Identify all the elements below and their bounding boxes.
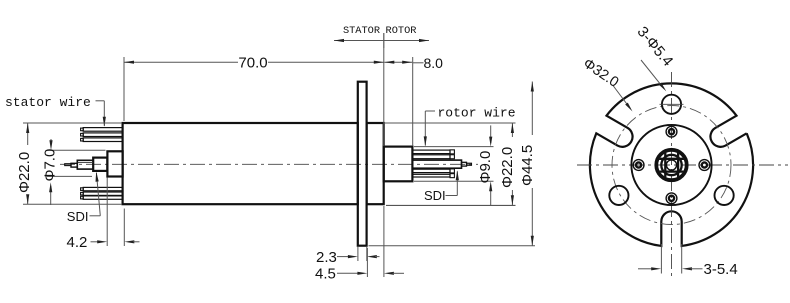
- svg-text:stator wire: stator wire: [5, 95, 91, 110]
- svg-text:70.0: 70.0: [238, 55, 267, 72]
- top hole crosshair: [660, 103, 684, 105]
- stator wires upper bundle: [83, 128, 122, 132]
- left shaft mid section: [93, 158, 107, 171]
- svg-text:Φ22.0: Φ22.0: [499, 147, 516, 188]
- dimension 4.5: [366, 248, 368, 277]
- centerline side view: [60, 163, 478, 165]
- dimension phi22.0 right: [385, 122, 516, 124]
- front view vertical centerline: [671, 72, 673, 278]
- label phi32.0: [613, 86, 630, 108]
- svg-text:Φ9.0: Φ9.0: [477, 151, 494, 184]
- left shaft sleeve: [77, 160, 93, 169]
- svg-text:SDI: SDI: [424, 188, 446, 203]
- dimension 2.3: [357, 247, 359, 261]
- svg-text:SDI: SDI: [67, 209, 89, 224]
- svg-text:STATOR: STATOR: [343, 25, 380, 37]
- stator body: [123, 123, 358, 204]
- four screws on hub: [666, 126, 677, 137]
- rotor neck: [367, 123, 384, 204]
- dimension 3-5.4: [660, 244, 662, 274]
- rotor hub: [384, 147, 413, 182]
- dimension phi22.0 left: [23, 122, 122, 124]
- svg-text:Φ7.0: Φ7.0: [42, 149, 59, 182]
- center knurled shaft end phi9: [656, 150, 686, 180]
- dimension 8.0: [412, 57, 414, 146]
- left shaft step: [71, 163, 77, 167]
- front view horizontal centerline: [577, 164, 788, 166]
- left shaft block: [107, 151, 122, 176]
- dimension phi9.0: [414, 146, 494, 148]
- svg-text:2.3: 2.3: [316, 249, 337, 266]
- hub circle phi22: [631, 125, 711, 205]
- dimension 70.0: [123, 57, 125, 121]
- rotor shaft: [412, 160, 461, 168]
- svg-text:3-5.4: 3-5.4: [704, 261, 738, 278]
- svg-text:4.5: 4.5: [315, 265, 336, 282]
- svg-text:Φ22.0: Φ22.0: [16, 152, 33, 193]
- svg-text:4.2: 4.2: [67, 234, 88, 251]
- rotor wires lower bundle: [412, 169, 450, 172]
- svg-text:ROTOR: ROTOR: [386, 25, 417, 37]
- svg-text:Φ44.5: Φ44.5: [519, 145, 536, 186]
- flange outer profile with 3 slots: [590, 83, 753, 246]
- svg-text:3-Φ5.4: 3-Φ5.4: [634, 23, 677, 69]
- stator rotor marker: [334, 40, 429, 42]
- label 3-phi5.4: [641, 60, 664, 88]
- bolt circle phi32: [612, 106, 731, 225]
- flange: [358, 82, 367, 246]
- svg-text:Φ32.0: Φ32.0: [580, 56, 622, 91]
- dimension 4.2: [106, 178, 108, 247]
- dimension phi44.5: [369, 245, 536, 247]
- svg-text:8.0: 8.0: [424, 55, 444, 71]
- rotor wires upper bundle: [412, 150, 450, 154]
- svg-text:rotor wire: rotor wire: [438, 106, 516, 121]
- dimension phi7.0 left: [47, 149, 106, 151]
- stator wires lower bundle: [83, 187, 122, 190]
- three phi5.4 bolt holes: [662, 95, 681, 114]
- left shaft tip: [65, 164, 71, 166]
